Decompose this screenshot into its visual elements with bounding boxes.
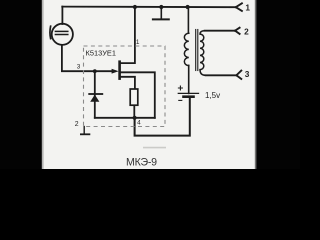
svg-text:К513УЕ1: К513УЕ1: [86, 49, 117, 58]
svg-text:1: 1: [136, 39, 140, 46]
svg-text:4: 4: [137, 119, 141, 126]
svg-text:3: 3: [245, 69, 250, 79]
svg-text:МКЭ-9: МКЭ-9: [126, 157, 157, 169]
svg-text:2: 2: [75, 121, 79, 128]
svg-text:1: 1: [245, 2, 250, 12]
svg-text:2: 2: [244, 26, 249, 36]
svg-text:1,5v: 1,5v: [205, 91, 220, 100]
svg-text:3: 3: [77, 63, 81, 70]
